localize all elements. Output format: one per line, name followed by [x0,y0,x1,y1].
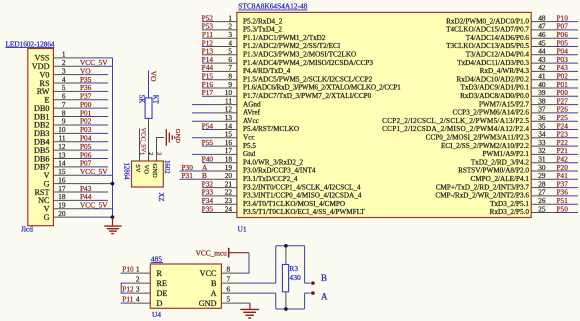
svg-text:AVcc: AVcc [243,117,259,125]
svg-text:DE: DE [157,289,168,298]
svg-text:D: D [157,299,163,308]
svg-text:VO: VO [149,71,158,82]
MCU U1 title STC8A8K64S4A12-48 [238,2,307,11]
svg-text:Vcc: Vcc [243,134,255,142]
svg-text:A: A [321,292,328,302]
svg-text:1: 1 [136,265,140,274]
svg-text:7: 7 [227,275,231,284]
junction at Jlcd pin 20 [111,215,115,219]
U1 pin 2 (P5.3/TxD4_2) net P53 [202,22,283,34]
svg-text:AVref: AVref [243,109,261,117]
svg-text:PWM7/A15/P2.7: PWM7/A15/P2.7 [479,100,530,108]
svg-text:LED1602-12864: LED1602-12864 [6,39,55,48]
svg-text:RSTSV/PWM0/A8/P2.0: RSTSV/PWM0/A8/P2.0 [458,167,529,175]
GND bus wire (left of Jlcd) [112,58,114,217]
svg-text:T4/ADC14/AD6/P0.6: T4/ADC14/AD6/P0.6 [466,34,530,42]
wire VO to resistor KT [148,71,150,98]
svg-text:P31: P31 [182,171,194,180]
svg-text:P5.2/RxD4_2: P5.2/RxD4_2 [243,17,283,25]
U1 pin 40 (TxD3/ADC9/AD1/P0.1) net P01 [461,80,579,92]
U4 pin 1 (R) net P10 [121,265,163,278]
svg-text:8: 8 [227,265,231,274]
svg-text:VCC_5V: VCC_5V [80,201,108,210]
svg-text:3: 3 [136,285,140,294]
U1 pin 44 (T3/ADC12/AD4/P0.4) net P04 [466,47,578,59]
svg-text:A: A [211,289,217,298]
svg-text:25: 25 [538,204,546,213]
svg-text:Gnd: Gnd [243,150,256,158]
wire XZ pin 3 to ground [157,138,165,162]
svg-text:CMPO_2/ALE/P4.1: CMPO_2/ALE/P4.1 [470,175,529,183]
wire loop left-top vertical [275,246,277,283]
svg-text:PWM1/A9/P2.1: PWM1/A9/P2.1 [482,150,529,158]
U1 pin 38 (PWM7/A15/P2.7) net P27 [479,96,578,108]
svg-text:P11: P11 [122,295,133,304]
svg-text:P3.2/INT0/CCP1_4/SCLK_4/I2CSCL: P3.2/INT0/CCP1_4/SCLK_4/I2CSCL_4 [243,183,361,191]
svg-text:P1.1/ADC1/PWM1_2/TxD2: P1.1/ADC1/PWM1_2/TxD2 [243,34,326,42]
U4 pin 6 (A) [211,285,242,298]
svg-text:P3.1/TxD/CCP2_4: P3.1/TxD/CCP2_4 [243,175,298,183]
svg-text:430: 430 [289,273,301,282]
U1 pin 19 (P3.0/RxD/CCP3_4/INT4) net P30A [180,163,316,175]
svg-text:P5.5: P5.5 [243,142,256,150]
svg-text:Jlcd: Jlcd [21,224,33,233]
svg-text:T3/ADC12/AD4/P0.4: T3/ADC12/AD4/P0.4 [466,51,530,59]
U1 pin 16 (P5.5) net P55 [202,138,257,150]
svg-text:5: 5 [227,295,231,304]
svg-text:CCP2_2/I2CSCL_2/SCLK_2/PWM5/A1: CCP2_2/I2CSCL_2/SCLK_2/PWM5/A13/P2.5 [382,117,529,125]
svg-text:P3.5/T1/T0CLKO/ECI_4/SS_4/PWMF: P3.5/T1/T0CLKO/ECI_4/SS_4/PWMFLT [243,208,365,216]
svg-text:P1.5/ADC5/PWM5_2/SCLK/I2CSCL/C: P1.5/ADC5/PWM5_2/SCLK/I2CSCL/CCP2 [243,75,373,83]
svg-text:AGnd: AGnd [243,100,261,108]
U1 pin 26 (TxD3_2/P5.1) net P51 [490,196,578,208]
U1 pin 31 (TxD2_2/RD_3/P4.2) net P42 [471,155,578,167]
svg-text:TxD3_2/P5.1: TxD3_2/P5.1 [490,200,529,208]
svg-text:P50: P50 [557,204,569,213]
U1 pin 35 (CCP1_2/I2CSDA_2/MISO_2/PWM4/A12/P2.4) net P24 [382,121,578,133]
svg-text:U4: U4 [152,310,161,319]
wire U4 GND pin to ground [242,302,250,304]
Jlcd pin 15 (V) net VCC_5V wire [44,167,113,180]
U1 pin 48 (RxD2/PWM0_2/ADC0/P1.0) net P10 [446,13,578,25]
svg-text:VCC_5V: VCC_5V [140,128,147,153]
U4 pin 2 (RE) [121,275,167,288]
U1 pin 15 (Vcc) [192,130,255,142]
Jlcd pin 7 (DB0) net P00 wire [34,100,108,113]
svg-text:1: 1 [138,152,144,155]
wire loop right-top vertical [304,246,306,283]
svg-text:P3.0/RxD/CCP3_4/INT4: P3.0/RxD/CCP3_4/INT4 [243,167,316,175]
Jlcd pin 16 (G) wire [44,175,113,188]
Jlcd pin 8 (DB1) net P01 wire [34,108,108,121]
connector XZ body [132,161,164,187]
svg-text:P5.3/TxD4_2: P5.3/TxD4_2 [243,26,282,34]
U1 pin 7 (P4.4/RD/TxD_4) net P44 [202,63,291,75]
svg-text:RxD2/PWM0_2/ADC0/P1.0: RxD2/PWM0_2/ADC0/P1.0 [446,17,529,25]
resistor R3 [282,265,288,292]
svg-text:P1.7/ADC7/TxD_3/PWM7_2/XTALI/C: P1.7/ADC7/TxD_3/PWM7_2/XTALI/CCP0 [243,92,372,100]
junction at Jlcd pin 16 [111,182,115,186]
U1 pin 5 (P1.3/ADC3/PWM3_2/MOSI/TC2LKO) net P13 [202,47,357,59]
U1 pin 10 (P1.7/ADC7/TxD_3/PWM7_2/XTALI/CCP0) net P17 [202,88,372,100]
svg-text:B: B [321,273,327,283]
Jlcd pin 5 (RW) net P36 wire [37,83,108,96]
svg-text:RxD3_2/P5.0: RxD3_2/P5.0 [490,208,530,216]
U1 pin 22 (P3.3/INT1/CCP0_4/MISO_4/I2CSDA_4) net P33 [202,188,362,200]
Jlcd pin 11 (DB4) net P04 wire [34,134,108,147]
U1 pin 46 (T4/ADC14/AD6/P0.6) net P06 [466,30,578,42]
ground symbol (rotated, middle) [166,129,181,146]
U1 pin 23 (P3.4/T0/T1CLKO/MOSI_4/CMPO) net P34 [202,196,345,208]
port dot A [311,291,315,295]
U1 pin 43 (TxD4/ADC11/AD3/P0.3) net P03 [457,55,578,67]
wire through resistor R3 [285,246,287,309]
svg-text:CCP0_2/MOSI_2/PWM3/A11/P2.3: CCP0_2/MOSI_2/PWM3/A11/P2.3 [426,134,530,142]
svg-text:VCC_5V: VCC_5V [80,167,108,176]
port dot B [311,281,315,285]
U1 pin 27 (CMP-/RxD_2/WR_2/INT2/P3.6) net P36 [435,188,578,200]
resistor KT [145,98,152,119]
svg-text:P10: P10 [122,265,134,274]
U1 pin 21 (P3.2/INT0/CCP1_4/SCLK_4/I2CSCL_4) net P32 [202,179,361,191]
U1 pin 17 (Gnd) [192,146,256,158]
U1 pin 12 (AVref) [192,105,261,117]
ground symbol below Jlcd [104,217,121,233]
svg-text:RE: RE [157,279,167,288]
svg-text:1602: 1602 [163,160,170,174]
svg-text:B: B [211,279,217,288]
svg-text:P1.2/ADC2/PWM2_2/SS/T2/ECI: P1.2/ADC2/PWM2_2/SS/T2/ECI [243,42,341,50]
Jlcd pin 12 (DB5) net P05 wire [34,142,108,155]
svg-text:2: 2 [147,152,153,155]
wire U4 VCC pin to VCC_mcu [242,253,249,273]
wire stub to port B [305,282,311,284]
wire U4 B pin to loop [242,282,276,284]
U1 pin 33 (ECI_2/SS_2/PWM2/A10/P2.2) net P22 [441,138,578,150]
svg-text:VO: VO [142,165,149,175]
wire resistor KT to XZ pin 2 [148,118,150,161]
svg-text:GND: GND [151,164,158,179]
U1 pin 45 (T3CLKO/ADC13/AD5/P0.5) net P05 [446,38,578,50]
connector Jlcd body [28,49,54,226]
svg-text:P1.4/ADC4/PWM4_2/MISO/I2CSDA/C: P1.4/ADC4/PWM4_2/MISO/I2CSDA/CCP3 [243,59,373,67]
wire loop top rail [276,245,305,247]
svg-text:P4.0/WR_3/RxD2_2: P4.0/WR_3/RxD2_2 [243,158,304,166]
U1 pin 9 (P1.6/ADC6/RxD_3/PWM6_2/XTALO/MCLKO_2/CCP1) net P16 [202,80,402,92]
wire loop bottom rail [276,308,305,310]
svg-text:5V: 5V [134,165,141,173]
U1 pin 24 (P3.5/T1/T0CLKO/ECI_4/SS_4/PWMFLT) net P35 [202,204,366,216]
svg-text:G: G [44,213,50,222]
svg-text:KT: KT [151,95,158,105]
wire tying U4 RE and DE [120,283,122,293]
svg-text:P55: P55 [202,138,214,147]
svg-text:20: 20 [58,209,66,218]
U1 pin 36 (CCP2_2/I2CSCL_2/SCLK_2/PWM5/A13/P2.5) net P25 [382,113,578,125]
U4 pin 5 (GND) [199,295,242,308]
wire loop right-bottom vertical [304,293,306,309]
U1 pin 32 (PWM1/A9/P2.1) net P21 [482,146,578,158]
svg-text:5K: 5K [138,95,145,103]
power stem VCC_mcu [229,252,249,254]
svg-text:GND: GND [174,129,181,144]
svg-text:T4CLKO/ADC15/AD7/P0.7: T4CLKO/ADC15/AD7/P0.7 [446,26,529,34]
svg-text:VCC_mcu: VCC_mcu [196,248,228,257]
U1 pin 39 (RxD3/ADC8/AD0/P0.0) net P00 [460,88,578,100]
U1 pin 11 (AGnd) [192,96,261,108]
Jlcd pin 18 (NC) net P44 wire [38,192,108,205]
U1 pin 20 (P3.1/TxD/CCP2_4) net P31B [180,171,298,183]
svg-text:R3: R3 [289,264,298,273]
svg-text:3: 3 [155,152,161,155]
svg-text:XZ: XZ [157,193,164,202]
svg-text:R: R [157,269,163,278]
svg-text:P35: P35 [202,204,214,213]
U1 pin 14 (P5.4/RST/MCLKO) net P54 [202,121,299,133]
Jlcd pin 19 (V) net VCC_5V wire [44,201,113,214]
svg-text:P12: P12 [122,285,134,294]
U4 body [150,264,221,308]
U1 pin 29 (CMPO_2/ALE/P4.1) net P41 [470,171,578,183]
svg-text:P3.4/T0/T1CLKO/MOSI_4/CMPO: P3.4/T0/T1CLKO/MOSI_4/CMPO [243,200,345,208]
U4 title 485 [151,254,163,263]
wire loop left-bottom vertical [275,293,277,309]
Jlcd pin 14 (DB7) net P07 wire [34,159,108,172]
U1 pin 13 (AVcc) [192,113,259,125]
svg-text:RxD4/ADC10/AD2/P0.2: RxD4/ADC10/AD2/P0.2 [457,75,530,83]
ground symbol below U4 [240,309,259,318]
U1 pin 41 (RxD4/ADC10/AD2/P0.2) net P02 [457,72,578,84]
U1 pin 30 (RSTSV/PWM0/A8/P2.0) net P20 [458,163,578,175]
svg-text:4: 4 [136,295,140,304]
Jlcd pin 10 (DB3) net P03 wire [34,125,108,138]
svg-text:RxD3/ADC8/AD0/P0.0: RxD3/ADC8/AD0/P0.0 [460,92,529,100]
U1 pin 47 (T4CLKO/ADC15/AD7/P0.7) net P07 [446,22,578,34]
U1 pin 18 (P4.0/WR_3/RxD2_2) net P40 [202,155,304,167]
wire XZ pin 1 [139,129,141,162]
Jlcd pin 20 (G) wire [44,209,113,222]
svg-text:P1.3/ADC3/PWM3_2/MOSI/TC2LKO: P1.3/ADC3/PWM3_2/MOSI/TC2LKO [243,51,356,59]
svg-text:TxD2_2/RD_3/P4.2: TxD2_2/RD_3/P4.2 [471,158,530,166]
svg-text:CCP3_2/PWM6/A14/P2.6: CCP3_2/PWM6/A14/P2.6 [453,109,530,117]
U1 pin 3 (P1.1/ADC1/PWM1_2/TxD2) net P11 [202,30,326,42]
svg-text:GND: GND [199,299,217,308]
Jlcd pin 4 (RS) net P35 wire [39,75,108,88]
svg-text:CMP+/TxD_2/RD_2/INT3/P3.7: CMP+/TxD_2/RD_2/INT3/P3.7 [436,183,530,191]
U4 pin 3 (DE) net P12 [121,285,168,298]
Jlcd pin 2 (VDD) net VCC_5V wire [32,58,113,71]
wire U4 A pin to loop [242,292,276,294]
svg-text:P3.3/INT1/CCP0_4/MISO_4/I2CSDA: P3.3/INT1/CCP0_4/MISO_4/I2CSDA_4 [243,192,362,200]
U1 pin 37 (CCP3_2/PWM6/A14/P2.6) net P26 [453,105,578,117]
svg-text:12864: 12864 [123,163,130,181]
U1 pin 25 (RxD3_2/P5.0) net P50 [490,204,578,216]
svg-text:U1: U1 [238,225,247,234]
U1 pin 28 (CMP+/TxD_2/RD_2/INT3/P3.7) net P37 [436,179,578,191]
svg-text:P1.6/ADC6/RxD_3/PWM6_2/XTALO/M: P1.6/ADC6/RxD_3/PWM6_2/XTALO/MCLKO_2/CCP… [243,84,401,92]
svg-text:CCP1_2/I2CSDA_2/MISO_2/PWM4/A1: CCP1_2/I2CSDA_2/MISO_2/PWM4/A12/P2.4 [382,125,529,133]
Jlcd pin 3 (V0) net VO wire [39,66,108,79]
ground stem (U4) [249,303,251,309]
U4 pin 8 (VCC) [200,265,242,278]
svg-text:CMP-/RxD_2/WR_2/INT2/P3.6: CMP-/RxD_2/WR_2/INT2/P3.6 [435,192,529,200]
U4 pin 4 (D) net P11 [121,295,163,308]
svg-text:6: 6 [227,285,231,294]
MCU U1 body [237,12,531,217]
svg-text:T3CLKO/ADC13/AD5/P0.5: T3CLKO/ADC13/AD5/P0.5 [446,42,529,50]
Jlcd pin 1 (VSS) wire [34,50,112,63]
svg-text:P4.4/RD/TxD_4: P4.4/RD/TxD_4 [243,67,291,75]
svg-text:VCC: VCC [200,269,217,278]
svg-text:ECI_2/SS_2/PWM2/A10/P2.2: ECI_2/SS_2/PWM2/A10/P2.2 [441,142,529,150]
wire stub to port A [305,292,311,294]
U1 pin 42 (RxD_4/WR/P4.3) net P43 [480,63,578,75]
U1 pin 8 (P1.5/ADC5/PWM5_2/SCLK/I2CSCL/CCP2) net P15 [202,72,373,84]
svg-text:TxD4/ADC11/AD3/P0.3: TxD4/ADC11/AD3/P0.3 [457,59,529,67]
U1 pin 6 (P1.4/ADC4/PWM4_2/MISO/I2CSDA/CCP3) net P14 [202,55,374,67]
Jlcd pin 13 (DB6) net P06 wire [34,150,108,163]
svg-text:485: 485 [151,254,162,263]
power port VCC_mcu [196,248,229,258]
svg-text:TxD3/ADC9/AD1/P0.1: TxD3/ADC9/AD1/P0.1 [461,84,530,92]
U4 pin 7 (B) [211,275,242,288]
U1 pin 34 (CCP0_2/MOSI_2/PWM3/A11/P2.3) net P23 [426,130,578,142]
Jlcd pin 6 (E) net P37 wire [44,92,108,105]
U1 pin 1 (P5.2/RxD4_2) net P52 [202,13,283,25]
svg-text:24: 24 [225,204,233,213]
svg-text:STC8A8K64S4A12-48: STC8A8K64S4A12-48 [238,2,307,11]
junction at R3 top [284,244,288,248]
connector Jlcd title LED1602-12864 [6,39,55,48]
Jlcd pin 17 (RST) net P43 wire [34,184,108,197]
Jlcd pin 9 (DB2) net P02 wire [34,117,108,130]
svg-text:P54: P54 [202,121,214,130]
svg-text:P17: P17 [202,88,214,97]
svg-text:2: 2 [136,275,140,284]
junction at R3 bottom [284,307,288,311]
U1 pin 4 (P1.2/ADC2/PWM2_2/SS/T2/ECI) net P12 [202,38,341,50]
svg-text:P5.4/RST/MCLKO: P5.4/RST/MCLKO [243,125,299,133]
svg-text:RxD_4/WR/P4.3: RxD_4/WR/P4.3 [480,67,530,75]
